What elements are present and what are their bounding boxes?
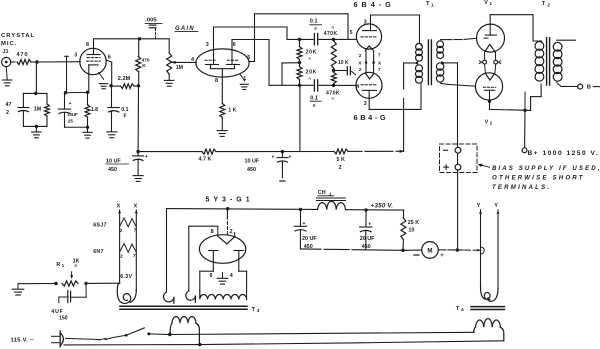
V1 filament leg right with X mark: [494, 52, 496, 60]
wire T1 secondary top to V1 grid: [441, 39, 453, 41]
switch SW1: [113, 335, 126, 337]
ground for J1: [6, 67, 7, 80]
svg-text:X: X: [378, 60, 382, 66]
resistor 20K lower: [299, 63, 301, 67]
wire cathode network bottom: [65, 126, 88, 128]
tube 6B4 top envelope: [356, 24, 381, 49]
T4 secondary hook: [481, 247, 485, 254]
capacitor 20uF 450 first: [300, 209, 302, 226]
svg-text:6: 6: [233, 42, 236, 48]
V1 filament: [485, 44, 496, 52]
6B4 bottom filament: [366, 73, 375, 79]
wire grid line to V tube1: [37, 61, 80, 63]
node cathode network bottom: [86, 126, 89, 129]
wire pin5 plate to top rail: [249, 61, 255, 63]
svg-text:2: 2: [359, 67, 362, 73]
svg-text:7: 7: [378, 67, 381, 73]
5Y3 filament: [218, 236, 235, 244]
node T3 primary left: [168, 333, 171, 336]
svg-text:+: +: [69, 101, 72, 107]
svg-text:n: n: [332, 25, 335, 29]
svg-text:TERMINALS.: TERMINALS.: [492, 184, 551, 191]
svg-text:CRYSTAL: CRYSTAL: [1, 33, 35, 39]
connector J1 jack: [2, 57, 11, 66]
svg-text:25: 25: [68, 119, 74, 124]
svg-text:3: 3: [364, 19, 367, 25]
svg-text:10 UF: 10 UF: [245, 158, 260, 164]
T4 secondary loops: [481, 287, 491, 300]
wire pin6 plate over: [232, 39, 269, 41]
svg-text:1: 1: [431, 2, 434, 7]
wire T2 primary top: [533, 40, 542, 42]
tube2 triode1 grid: [205, 59, 217, 61]
wire rectifier cathode: [226, 209, 228, 220]
svg-text:25 K: 25 K: [408, 220, 419, 226]
tube 6B4 bottom envelope: [356, 72, 382, 98]
svg-text:3: 3: [206, 42, 209, 48]
svg-text:+: +: [440, 253, 444, 259]
Y terminal arrow right: [497, 210, 499, 216]
svg-text:2: 2: [6, 110, 9, 116]
svg-text:6B4-G: 6B4-G: [354, 113, 389, 122]
resistor 4.7K: [202, 149, 216, 154]
V1 plate: [485, 34, 496, 36]
resistor 5K: [334, 149, 348, 154]
svg-text:4: 4: [356, 84, 359, 90]
svg-text:1M: 1M: [34, 107, 42, 113]
svg-text:+350 V.: +350 V.: [371, 204, 393, 210]
wire pin3 plate line: [214, 26, 288, 28]
wire AC lower long: [200, 343, 360, 345]
6B4 bottom plate: [363, 89, 377, 91]
node plate line: [138, 37, 141, 40]
5Y3 plate left: [209, 250, 219, 252]
wire T2 secondary top: [557, 39, 576, 41]
resistor 470: [17, 59, 31, 64]
wire cathode row: [66, 91, 88, 93]
ground 0.1 cap: [107, 131, 117, 133]
svg-text:7: 7: [378, 53, 381, 59]
V1 grid: [484, 37, 488, 39]
tube V2 envelope: [475, 73, 502, 100]
svg-text:8: 8: [211, 229, 214, 235]
svg-text:1M: 1M: [176, 65, 183, 71]
heater lead left arrow: [119, 210, 121, 216]
node rectifier output: [226, 207, 229, 210]
tube first speech amp envelope: [80, 48, 106, 74]
tube2 triode2 plate: [231, 40, 233, 65]
transformer T1 secondary winding: [437, 41, 444, 48]
wire 6B4 plate bottom to T1: [369, 108, 421, 110]
tube1 cathode: [89, 64, 98, 66]
node V2 plate lead: [488, 100, 491, 103]
wire 6B4 bottom plate down: [368, 98, 370, 109]
AC plug: [59, 331, 61, 347]
svg-text:X: X: [358, 60, 362, 66]
svg-text:20 UF: 20 UF: [302, 236, 317, 242]
svg-text:a: a: [314, 26, 317, 31]
node B plus takeoff: [523, 109, 526, 112]
node screen divider left: [109, 84, 112, 87]
svg-text:n: n: [309, 76, 312, 80]
wire rail to dropper node: [348, 150, 362, 152]
svg-text:M: M: [427, 247, 432, 254]
capacitor 10uF 25: [64, 93, 66, 109]
tube1 control grid: [87, 60, 101, 62]
wire bias line from T1 CT: [457, 63, 459, 85]
wire screen exit: [106, 60, 112, 62]
V2 grid: [483, 86, 495, 88]
ground 1K: [217, 130, 227, 132]
bias bus tee: [453, 249, 463, 251]
transformer T2 core: [546, 38, 548, 85]
svg-text:0.1: 0.1: [121, 107, 128, 113]
wire cathode to 1K: [221, 96, 223, 104]
ground gain pot: [164, 79, 174, 81]
wire 5Y3 pin8 elbow: [189, 225, 218, 227]
tube2 envelope: [196, 49, 249, 77]
svg-text:6B4-G: 6B4-G: [354, 0, 395, 9]
svg-text:5: 5: [247, 55, 250, 61]
node R1 left: [54, 282, 57, 285]
node cathode row right: [86, 91, 89, 94]
tube1 suppressor to ground: [99, 72, 104, 79]
wire top grid line: [287, 38, 313, 40]
transformer T1 primary winding: [416, 43, 423, 50]
transformer T2 secondary winding: [553, 42, 562, 51]
svg-text:6SJ7: 6SJ7: [93, 223, 107, 229]
Y terminal arrow left: [480, 210, 482, 216]
pot wiper arrow: [172, 61, 176, 63]
ground grid-leak: [35, 126, 37, 131]
svg-text:47: 47: [6, 102, 12, 108]
svg-text:3: 3: [74, 53, 77, 59]
transformer T1 core: [427, 40, 429, 85]
svg-text:1.8: 1.8: [91, 107, 98, 113]
svg-text:2: 2: [120, 253, 123, 258]
svg-text:6: 6: [210, 273, 213, 279]
ground cathode network: [87, 127, 89, 132]
wire bus dash to T4: [465, 249, 471, 251]
svg-text:F: F: [124, 114, 127, 120]
capacitor 20uF 450 second: [365, 210, 367, 227]
resistor 25K bleeder: [402, 210, 404, 218]
T4 secondary lead left: [480, 216, 482, 288]
svg-text:470: 470: [142, 57, 150, 63]
svg-text:4.7 K: 4.7 K: [199, 157, 212, 163]
wire V2 plate to T2 bottom: [489, 101, 491, 109]
svg-text:6: 6: [108, 54, 111, 60]
wire plate line right: [140, 38, 170, 40]
svg-text:a: a: [313, 102, 316, 107]
node plate load bottom: [137, 84, 140, 87]
ground HV center tap: [222, 273, 224, 278]
wire negative bus: [300, 248, 321, 250]
svg-text:R: R: [56, 262, 60, 268]
capacitor 0.1 bottom: [313, 80, 315, 91]
wire grid-leak box bottom: [23, 125, 47, 127]
svg-text:X: X: [134, 203, 138, 209]
wire V1 plate to T2: [490, 14, 533, 16]
wire row to 6.3V winding: [86, 282, 120, 284]
tube1 screen grid: [87, 57, 100, 59]
wire divider mid left: [282, 62, 300, 64]
svg-text:T: T: [542, 1, 546, 7]
wire pin1 to ground: [240, 74, 245, 81]
svg-text:0.1: 0.1: [310, 95, 318, 101]
node R1 right: [84, 282, 87, 285]
tube1 plate: [93, 39, 95, 55]
node grid-leak bottom: [35, 125, 38, 128]
svg-text:20K: 20K: [306, 49, 317, 55]
svg-text:2: 2: [547, 2, 550, 7]
svg-text:1 K: 1 K: [228, 107, 236, 113]
resistor 470K upper: [331, 41, 336, 69]
potentiometer 1M gain: [168, 39, 170, 53]
wire wiper to tube2 grid: [176, 61, 196, 63]
terminal B output: [578, 84, 583, 89]
svg-text:470: 470: [17, 52, 29, 58]
svg-text:450: 450: [108, 167, 117, 173]
svg-text:CH: CH: [318, 190, 326, 196]
heater lead right: [135, 216, 137, 290]
ground pin1 tube2: [240, 83, 248, 85]
node grid resistor top: [332, 38, 335, 41]
wire AC neutral: [64, 344, 200, 346]
svg-text:6.3V: 6.3V: [120, 274, 132, 280]
capacitor 0.1 first stage: [111, 86, 113, 108]
wire 5Y3 pin8 entry: [217, 226, 219, 236]
capacitor hum filter: [85, 283, 87, 297]
svg-text:+: +: [289, 155, 292, 161]
svg-text:7: 7: [134, 227, 137, 232]
label meter minus: [414, 254, 419, 256]
svg-text:10 UF: 10 UF: [106, 158, 121, 164]
wire 6B4 top plate to T1: [370, 15, 372, 24]
terminal minus C: [444, 149, 448, 151]
terminal plus C: [444, 166, 449, 168]
svg-text:T: T: [252, 307, 256, 313]
heater 6N7: [120, 244, 137, 253]
svg-text:4: 4: [191, 57, 194, 63]
wire T2 secondary bottom to B terminal: [557, 83, 561, 87]
wire between bias terminals: [457, 153, 459, 164]
filament bus right: [373, 51, 375, 73]
node cathode row left: [64, 91, 67, 94]
resistor 470K lower: [331, 73, 336, 84]
transformer T4 primary: [476, 319, 501, 328]
svg-text:20 UF: 20 UF: [360, 236, 375, 242]
T4 secondary lead right: [497, 216, 499, 291]
transformer T3 core: [120, 305, 247, 307]
svg-text:450: 450: [247, 167, 256, 173]
heater lead left: [119, 216, 121, 283]
svg-text:n: n: [332, 97, 335, 101]
svg-text:3: 3: [257, 308, 260, 314]
wire plate left to HV winding: [200, 270, 214, 272]
wire choke to +350 node: [346, 209, 404, 211]
wire B plus down: [524, 92, 526, 110]
node divider bottom: [298, 84, 301, 87]
capacitor .005: [149, 24, 156, 26]
wire divider left leg: [281, 63, 283, 85]
potentiometer R1: [62, 281, 78, 286]
wire divider to B+ rail: [299, 85, 301, 151]
V1 filament leg left with X mark: [484, 52, 486, 60]
5Y3 plate right: [234, 250, 244, 252]
tube2 cathodes: [211, 65, 235, 69]
svg-text:+: +: [145, 154, 148, 160]
svg-text:10 K: 10 K: [338, 60, 349, 66]
wire meter to bias junction: [438, 249, 446, 251]
capacitor 10uF 450 second: [281, 152, 283, 158]
svg-text:X: X: [117, 203, 121, 209]
node filter input: [299, 208, 302, 211]
node grid-leak top: [34, 92, 37, 95]
T3 5V winding loop B: [186, 291, 196, 302]
svg-text:n: n: [309, 56, 312, 60]
T1 primary center tap arrow: [414, 61, 419, 65]
svg-text:5: 5: [350, 30, 353, 36]
resistor 2.2M: [111, 85, 121, 87]
svg-text:Y: Y: [477, 203, 481, 209]
svg-text:2: 2: [490, 120, 493, 125]
node +350V: [364, 208, 367, 211]
wire T1 center tap feed: [403, 63, 405, 89]
svg-text:V: V: [485, 119, 489, 125]
wire grid-leak box top: [23, 92, 47, 94]
capacitor 10uF 450 first: [137, 152, 139, 156]
node T3 primary right: [198, 343, 201, 346]
svg-text:J1: J1: [3, 49, 9, 55]
svg-text:B: B: [587, 84, 591, 90]
stub crossing line near cathode: [66, 56, 68, 92]
wire junction to grid-leak network: [35, 62, 37, 93]
junction arrow rail: [400, 150, 404, 153]
svg-text:115 V. ~: 115 V. ~: [11, 338, 35, 344]
svg-text:6N7: 6N7: [93, 249, 104, 255]
transformer T2 primary winding: [535, 42, 544, 51]
node rail left: [136, 150, 139, 153]
V2 plate: [484, 89, 494, 91]
capacitor 47: [22, 93, 24, 107]
svg-text:10: 10: [408, 228, 414, 234]
wire HV rail left corner down: [166, 209, 168, 292]
capacitor filament bypass: [334, 70, 346, 72]
wire AC hot to switch: [66, 338, 100, 339]
svg-text:8: 8: [86, 42, 89, 48]
svg-text:150: 150: [59, 316, 68, 322]
svg-text:8: 8: [215, 78, 218, 84]
svg-text:OTHERWISE SHORT: OTHERWISE SHORT: [492, 174, 585, 181]
wire switch to T3 primary: [149, 333, 170, 336]
svg-text:2: 2: [359, 53, 362, 59]
terminal B plus 1000: [522, 148, 527, 153]
wire bus to meter: [403, 249, 422, 251]
wire plate right to HV winding: [239, 270, 247, 272]
T3 HV winding: [200, 290, 247, 300]
svg-text:2.2M: 2.2M: [118, 76, 131, 82]
bias supply dashed box: [440, 144, 478, 173]
resistor 470K plate load: [138, 39, 140, 57]
wire T1 secondary bottom to V2 grid: [441, 83, 448, 84]
svg-text:2: 2: [339, 165, 342, 171]
6B4 top filament: [365, 46, 373, 51]
svg-text:.005: .005: [145, 18, 157, 24]
node grid resistors mid: [332, 69, 335, 72]
wire plus C down to bus: [457, 170, 459, 250]
resistor 1.8: [87, 92, 89, 104]
tube2 triode2 grid: [228, 59, 240, 61]
svg-text:GAIN: GAIN: [175, 26, 195, 32]
R1 wiper arrow: [71, 272, 73, 275]
svg-text:1: 1: [490, 1, 493, 6]
wire tube1 plate to rail: [94, 38, 140, 40]
svg-text:V: V: [484, 0, 488, 6]
node divider mid: [298, 61, 301, 64]
wire heater return row: [18, 283, 56, 285]
svg-text:4UF: 4UF: [51, 309, 63, 315]
heater lead right arrow: [135, 210, 137, 216]
svg-text:5Y3-G1: 5Y3-G1: [206, 197, 254, 204]
resistor 1M: [46, 93, 48, 104]
wire 5Y3 pin2 stub: [234, 232, 236, 236]
capacitor 0.1 top: [313, 34, 315, 45]
6B4 bottom grid: [361, 84, 378, 86]
resistor 1K: [220, 104, 225, 118]
ground heater row: [17, 284, 19, 289]
ground 10uF 450 first: [133, 175, 143, 177]
svg-text:+: +: [368, 221, 371, 227]
svg-text:470K: 470K: [324, 31, 338, 37]
svg-text:7: 7: [133, 253, 136, 258]
T3 6.3V winding hairpin: [117, 283, 130, 303]
svg-text:+: +: [272, 155, 275, 161]
bias note arrow: [479, 165, 489, 168]
meter M: [422, 242, 439, 259]
filament bus left: [365, 51, 367, 73]
svg-text:0.1: 0.1: [310, 19, 318, 25]
svg-text:470K: 470K: [326, 90, 340, 96]
T1 secondary center tap arrow: [441, 61, 446, 65]
svg-text:MIC.: MIC.: [1, 41, 17, 47]
wire plate load to B+ rail: [137, 86, 139, 152]
node rail filter2: [281, 150, 284, 153]
node grid junction: [35, 60, 38, 63]
svg-text:BIAS SUPPLY IF USED,: BIAS SUPPLY IF USED,: [492, 165, 600, 172]
wire B+ rail mid: [216, 151, 334, 153]
resistor 20K upper: [299, 39, 301, 46]
transformer T3 primary: [172, 317, 196, 324]
6B4 top grid: [361, 36, 378, 38]
svg-text:Y: Y: [494, 203, 498, 209]
svg-text:4: 4: [461, 307, 464, 313]
6B4 top plate: [370, 24, 372, 30]
svg-text:20K: 20K: [306, 69, 317, 75]
svg-text:T: T: [456, 306, 460, 312]
svg-text:4: 4: [230, 273, 233, 279]
svg-text:5 K: 5 K: [337, 157, 345, 163]
V2 filament: [485, 73, 494, 80]
wire HV output rail: [167, 208, 318, 211]
tube V1 envelope: [477, 24, 505, 52]
svg-text:B+ 1000 1250 V.: B+ 1000 1250 V.: [528, 150, 600, 157]
node divider top: [298, 38, 301, 41]
5Y3 envelope: [199, 235, 245, 264]
tube2 triode1 plate: [213, 27, 215, 64]
svg-text:3: 3: [364, 101, 367, 107]
wire B+ rail: [138, 151, 202, 153]
